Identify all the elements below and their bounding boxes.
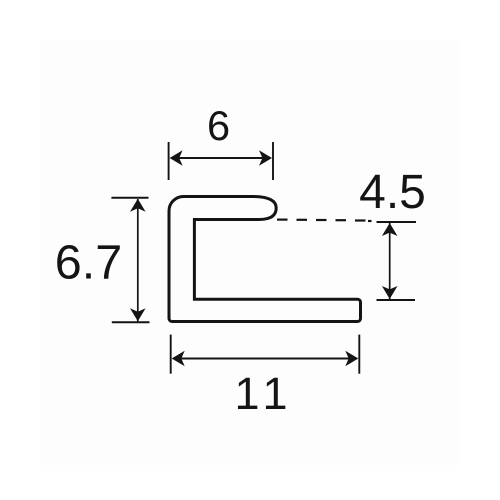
svg-text:4.5: 4.5 xyxy=(359,166,426,219)
top dimension arrow left xyxy=(170,150,183,166)
dashed reference line from lip to 4.5 dimension xyxy=(277,220,372,221)
right dimension line xyxy=(389,223,391,299)
top dimension line xyxy=(172,157,270,159)
profile outline (J-shaped trim cross-section) xyxy=(169,197,361,322)
top dimension arrow right xyxy=(259,150,272,166)
right dimension: bottom tick xyxy=(377,299,416,301)
bottom dimension arrow left xyxy=(172,351,185,367)
bottom dimension arrow right xyxy=(345,351,358,367)
bottom dimension line xyxy=(174,358,356,360)
left dimension line xyxy=(137,199,139,322)
right dimension arrow up xyxy=(382,223,398,236)
left dimension: top tick xyxy=(111,197,148,199)
bottom dimension: extension line right xyxy=(358,335,360,374)
left dimension arrow down xyxy=(130,308,146,321)
right dimension arrow down xyxy=(382,286,398,299)
svg-text:6.7: 6.7 xyxy=(55,236,122,290)
right dimension: top tick xyxy=(377,221,417,223)
left dimension arrow up xyxy=(130,199,146,212)
bottom dimension: extension line left xyxy=(170,335,172,374)
left dimension: bottom tick xyxy=(112,321,150,323)
svg-text:1: 1 xyxy=(262,368,287,419)
svg-text:1: 1 xyxy=(234,368,259,419)
svg-text:6: 6 xyxy=(207,102,230,149)
top dimension: extension line left xyxy=(168,142,170,180)
top dimension: extension line right xyxy=(272,142,274,180)
